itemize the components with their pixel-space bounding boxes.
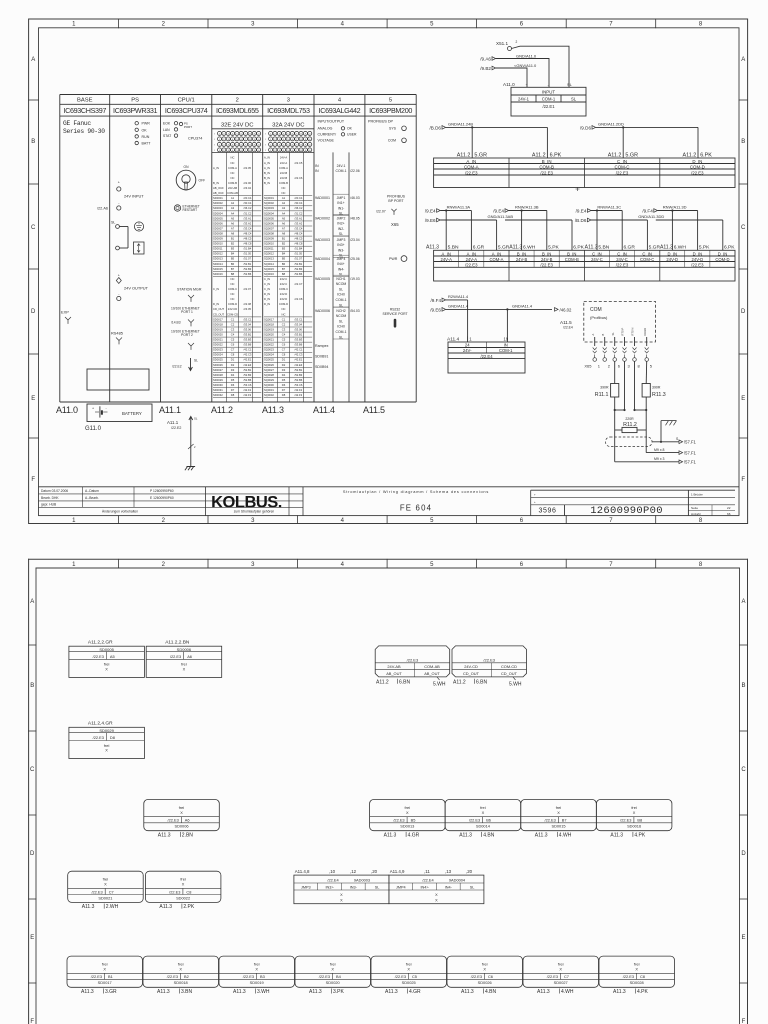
svg-text:COM-D: COM-D: [690, 164, 705, 169]
svg-text:/48.C8: /48.C8: [244, 242, 252, 246]
svg-text:+: +: [118, 274, 120, 278]
svg-text:390R: 390R: [652, 386, 661, 390]
svg-text:INPUT/OUTPUT: INPUT/OUTPUT: [318, 120, 345, 124]
svg-text:A11.3: A11.3: [159, 904, 172, 910]
svg-text:NCH1: NCH1: [336, 277, 345, 281]
svg-text:C6: C6: [488, 974, 493, 979]
svg-text:C_IN: C_IN: [264, 277, 270, 281]
svg-text:COM-A: COM-A: [228, 166, 237, 170]
svg-text:SD0002: SD0002: [213, 201, 223, 205]
svg-text:E: E: [31, 396, 35, 402]
svg-text:A6: A6: [282, 221, 286, 225]
svg-text:AB_OUT: AB_OUT: [386, 671, 402, 676]
svg-text:EXP: EXP: [61, 310, 69, 315]
svg-text:C_IN: C_IN: [213, 287, 219, 291]
svg-text:IN: IN: [315, 164, 319, 168]
svg-text:A6: A6: [187, 654, 192, 659]
svg-text:SL: SL: [339, 319, 343, 323]
svg-text:/22.E3: /22.E3: [623, 974, 634, 979]
svg-text:/48.C8: /48.C8: [295, 242, 303, 246]
svg-text:X: X: [105, 667, 108, 672]
svg-text:SD0026: SD0026: [213, 363, 223, 367]
svg-text:24V-D: 24V-D: [692, 257, 704, 262]
resistor R11.2 220R termination: [615, 410, 647, 433]
svg-text:3.BN: 3.BN: [181, 989, 193, 995]
svg-text:CD_OUT: CD_OUT: [213, 307, 224, 311]
svg-text:/22.C6: /22.C6: [295, 176, 303, 180]
svg-text:COM-D: COM-D: [279, 302, 288, 306]
terminal block A11.3|3.GR: [67, 956, 143, 995]
svg-text:COM-B: COM-B: [228, 181, 237, 185]
svg-text:/22.05: /22.05: [244, 166, 252, 170]
svg-text:A11.3: A11.3: [158, 832, 171, 838]
svg-text:A_IN: A_IN: [264, 156, 270, 160]
svg-text:B8: B8: [637, 818, 642, 823]
svg-text:D_IN: D_IN: [667, 251, 677, 256]
svg-text:/53.04: /53.04: [244, 322, 252, 326]
svg-text:A11.2: A11.2: [211, 405, 233, 415]
svg-text:C: C: [741, 767, 746, 773]
svg-text:/48.C5: /48.C5: [244, 237, 252, 241]
svg-text:C6: C6: [282, 343, 286, 347]
svg-text:R11.2: R11.2: [623, 422, 637, 428]
svg-text:/22.E3: /22.E3: [93, 654, 104, 659]
svg-text:,13: ,13: [445, 869, 452, 874]
svg-text:A2: A2: [282, 201, 286, 205]
svg-text:GND/A11.0: GND/A11.0: [516, 54, 537, 59]
svg-text:/22.E3: /22.E3: [620, 818, 631, 823]
svg-text:5.BN: 5.BN: [598, 244, 609, 250]
svg-text:3.PK: 3.PK: [333, 989, 345, 995]
svg-text:AB_OUF: AB_OUF: [213, 186, 224, 190]
svg-text:B_IN: B_IN: [264, 171, 270, 175]
svg-text:6.BN: 6.BN: [476, 680, 488, 686]
svg-text:SD0014: SD0014: [476, 824, 491, 829]
svg-text:SQ0030: SQ0030: [264, 383, 274, 387]
svg-text:A11.0: A11.0: [503, 82, 515, 87]
svg-text:A5: A5: [282, 216, 286, 220]
svg-text:19: 19: [504, 337, 509, 342]
svg-text:CURRENT/: CURRENT/: [318, 133, 337, 137]
svg-text:RS232: RS232: [390, 308, 400, 312]
svg-text:SL: SL: [339, 303, 343, 307]
svg-text:24V-D: 24V-D: [666, 257, 678, 262]
connector X51.1: [496, 40, 518, 50]
svg-text:24V-A: 24V-A: [280, 156, 288, 160]
svg-text:SD0020: SD0020: [213, 332, 223, 336]
power supply 24V input terminals: [97, 181, 144, 211]
svg-text:C1: C1: [282, 317, 286, 321]
svg-text:D: D: [30, 851, 35, 857]
svg-text:SD0014: SD0014: [213, 262, 223, 266]
svg-text:ANALOG: ANALOG: [318, 127, 333, 131]
svg-text:/22.E2: /22.E2: [171, 426, 181, 430]
svg-text:/53.04: /53.04: [295, 322, 303, 326]
CPU status LEDs and CPU374 label: [163, 122, 202, 141]
svg-text:IN4+: IN4+: [337, 262, 344, 266]
svg-text:B3: B3: [231, 247, 235, 251]
svg-text:/22.E3: /22.E3: [167, 974, 178, 979]
svg-text:F: F: [30, 1019, 34, 1024]
svg-text:4.BN: 4.BN: [485, 989, 497, 995]
svg-text:PORT: PORT: [184, 125, 192, 129]
svg-text:B5: B5: [411, 818, 416, 823]
svg-text:SL: SL: [611, 332, 615, 336]
module 3 header 32A 24V DC terminal block: [263, 122, 314, 152]
svg-text:/22.E3: /22.E3: [471, 974, 482, 979]
module 5 PWR LED: [389, 256, 407, 262]
svg-text:IN2+: IN2+: [337, 222, 344, 226]
svg-text:RNW/A11.3C: RNW/A11.3C: [597, 204, 621, 209]
junction mark below A11.2 block: [576, 187, 580, 191]
svg-text:6.GR: 6.GR: [473, 244, 485, 250]
svg-text:OK: OK: [142, 128, 148, 132]
svg-text:/19.03: /19.03: [350, 277, 360, 281]
svg-text:SQ0032: SQ0032: [264, 393, 274, 397]
svg-text:C_IN: C_IN: [264, 282, 270, 286]
terminal block A11.2,2.GR: [69, 640, 144, 678]
svg-text:SD0018: SD0018: [174, 980, 188, 985]
svg-text:NC: NC: [282, 307, 286, 311]
svg-text:A5: A5: [110, 654, 115, 659]
svg-text:X51.1: X51.1: [496, 41, 508, 46]
svg-text:SQ0004: SQ0004: [264, 211, 274, 215]
svg-text:A6: A6: [185, 818, 190, 823]
svg-text:C3: C3: [282, 327, 286, 331]
svg-text:D_IN: D_IN: [693, 251, 703, 256]
svg-text:/33.A2: /33.A2: [244, 221, 252, 225]
svg-text:IN3+: IN3+: [337, 243, 344, 247]
svg-text:/53.C1: /53.C1: [244, 317, 252, 321]
svg-text:/53.B1: /53.B1: [295, 332, 303, 336]
svg-text:B4: B4: [282, 252, 286, 256]
svg-text:COM-CD: COM-CD: [501, 664, 517, 669]
svg-text:SD0012: SD0012: [213, 252, 223, 256]
terminal block A11.2 6.BN 5.WH output AB: [375, 646, 450, 688]
svg-text:/42.C3: /42.C3: [244, 353, 252, 357]
ground and shield below A11.1: [167, 417, 198, 471]
svg-text:B4: B4: [231, 252, 235, 256]
CPU key switch: [176, 165, 205, 190]
svg-text:/22.E3: /22.E3: [93, 735, 104, 740]
module 5 RS232 service port: [382, 308, 407, 328]
svg-text:COM-1: COM-1: [336, 330, 347, 334]
svg-text:A11.3: A11.3: [459, 832, 472, 838]
cable shield symbol: [606, 437, 653, 447]
sheet 2: [29, 559, 748, 1024]
module 4 header INPUT/OUTPUT ANALOG: [318, 120, 357, 143]
svg-text:B: B: [741, 683, 745, 689]
svg-text:/42.E3: /42.E3: [295, 363, 303, 367]
svg-text:/42.C1: /42.C1: [244, 348, 252, 352]
svg-text:C5: C5: [412, 974, 417, 979]
svg-text:/51.05: /51.05: [295, 252, 303, 256]
svg-text:/53.B3: /53.B3: [244, 338, 252, 342]
svg-text:/33.A1: /33.A1: [295, 216, 303, 220]
module 2 IC693MDL655 input terminal listing SD0001-SD0032: [213, 152, 261, 402]
svg-text:24V-CD: 24V-CD: [228, 307, 237, 311]
terminal block A11.3|4.GR: [370, 800, 446, 839]
svg-text:IC693MDL753: IC693MDL753: [267, 106, 310, 115]
terminal block A11.3|4.PK: [599, 956, 675, 995]
svg-text:66: 66: [727, 512, 731, 516]
svg-text:/20.C4: /20.C4: [244, 196, 252, 200]
wire RTS-N to termination node: [633, 361, 647, 411]
svg-text:/B.D6: /B.D6: [430, 125, 442, 130]
svg-text:B1: B1: [282, 237, 286, 241]
svg-text:D6: D6: [231, 383, 235, 387]
svg-text:+: +: [92, 407, 94, 411]
svg-text:NC: NC: [282, 186, 286, 190]
svg-text:A7: A7: [282, 226, 286, 230]
svg-text:9AD0003: 9AD0003: [354, 878, 370, 883]
svg-text:F: F: [31, 477, 35, 483]
svg-text:A11.3: A11.3: [535, 832, 548, 838]
svg-text:COM-C: COM-C: [640, 257, 654, 262]
svg-text:C3: C3: [231, 327, 235, 331]
svg-text:JMP3: JMP3: [301, 886, 311, 890]
svg-text:/22.E3: /22.E3: [616, 263, 629, 268]
svg-text:/22.E3: /22.E3: [168, 818, 179, 823]
svg-text:SQ0017: SQ0017: [264, 317, 274, 321]
svg-text:/31.C2: /31.C2: [295, 211, 303, 215]
svg-text:NC: NC: [231, 282, 235, 286]
svg-text:IN3-: IN3-: [350, 886, 358, 890]
svg-text:B: B: [601, 334, 605, 336]
svg-text:C: C: [31, 225, 36, 231]
svg-text:SQ0028: SQ0028: [264, 373, 274, 377]
svg-text:SL: SL: [339, 287, 343, 291]
svg-text:F: F: [741, 477, 745, 483]
svg-text:C_IN: C_IN: [642, 251, 652, 256]
svg-text:C7: C7: [282, 348, 286, 352]
svg-text:SQ0029: SQ0029: [264, 378, 274, 382]
svg-text:ICH0: ICH0: [337, 293, 345, 297]
svg-text:SD0016: SD0016: [213, 272, 223, 276]
svg-text:/33.A1: /33.A1: [244, 216, 252, 220]
svg-text:COM-1: COM-1: [499, 348, 513, 353]
svg-text:gepr. HUB: gepr. HUB: [41, 502, 57, 506]
svg-text:/52.B3: /52.B3: [244, 373, 252, 377]
svg-text:/B.D6: /B.D6: [575, 218, 587, 223]
svg-text:A1: A1: [231, 196, 235, 200]
svg-text:C4: C4: [282, 332, 286, 336]
svg-text:A8: A8: [231, 231, 235, 235]
svg-text:SD0025: SD0025: [213, 358, 223, 362]
svg-text:IC693PBM200: IC693PBM200: [369, 106, 412, 115]
svg-text:A11.0: A11.0: [56, 405, 78, 415]
svg-text:B6: B6: [231, 262, 235, 266]
svg-text:D4: D4: [231, 373, 235, 377]
svg-text:A8: A8: [282, 231, 286, 235]
svg-text:IC693PWR331: IC693PWR331: [113, 106, 157, 115]
svg-text:24V-A: 24V-A: [440, 257, 452, 262]
svg-text:SD0019: SD0019: [213, 327, 223, 331]
svg-text:/22.E3: /22.E3: [395, 974, 406, 979]
svg-text:D_IN: D_IN: [264, 297, 270, 301]
svg-text:SD0023: SD0023: [213, 348, 223, 352]
terminal block A11.2,2.BN: [146, 640, 222, 678]
svg-text:SQ0020: SQ0020: [264, 332, 274, 336]
svg-text:COM-AB: COM-AB: [227, 191, 238, 195]
svg-text:G11.0: G11.0: [85, 426, 102, 432]
svg-text:/22.06: /22.06: [244, 181, 252, 185]
svg-text:A6: A6: [231, 221, 235, 225]
svg-text:EOK: EOK: [163, 122, 171, 126]
svg-text:SD0018: SD0018: [213, 322, 223, 326]
svg-text:GE Fanuc: GE Fanuc: [63, 120, 91, 127]
svg-text:A_IN: A_IN: [466, 159, 476, 164]
svg-text:/33.C4: /33.C4: [244, 226, 252, 230]
svg-text:4.WH: 4.WH: [559, 832, 572, 838]
svg-text:SD0022: SD0022: [213, 343, 223, 347]
svg-text:/22.E3: /22.E3: [170, 654, 181, 659]
svg-text:PORT 2: PORT 2: [181, 333, 193, 337]
svg-text:24V-C: 24V-C: [616, 257, 628, 262]
svg-text:/22.E3: /22.E3: [91, 974, 102, 979]
svg-text:B: B: [31, 139, 35, 145]
terminal block A11.3|4.GR: [371, 956, 447, 995]
svg-text:24V-1: 24V-1: [337, 164, 346, 168]
svg-text:B8: B8: [282, 272, 286, 276]
PLC rack A11 module table grid: [60, 95, 416, 403]
svg-text:/52.B3: /52.B3: [295, 267, 303, 271]
svg-text:GND/A11.3DD: GND/A11.3DD: [638, 214, 664, 219]
svg-text:/51.B4: /51.B4: [244, 247, 252, 251]
CPU ethernet port 1: [171, 307, 200, 327]
svg-text:B_IN: B_IN: [567, 251, 576, 256]
svg-text:SD0026: SD0026: [478, 980, 492, 985]
svg-text:C5: C5: [282, 338, 286, 342]
svg-text:24V-CD: 24V-CD: [464, 664, 478, 669]
svg-text:RNW/A11.3D: RNW/A11.3D: [663, 204, 687, 209]
svg-text:RNW/A11.3A: RNW/A11.3A: [447, 204, 471, 209]
svg-text:BATTERY: BATTERY: [122, 411, 142, 416]
shield output S to /57.F1: [652, 437, 697, 445]
COM Profibus dashed interface box: [584, 301, 656, 342]
svg-text:A11.2,4.GR: A11.2,4.GR: [88, 721, 113, 727]
svg-text:/22.A6: /22.A6: [97, 207, 108, 211]
svg-text:INPUT: INPUT: [542, 90, 555, 95]
svg-text:9AD0003: 9AD0003: [315, 238, 330, 242]
svg-text:12600990P00: 12600990P00: [590, 505, 663, 517]
svg-text:/53.B3: /53.B3: [295, 338, 303, 342]
svg-text:6.PK: 6.PK: [573, 244, 584, 250]
terminal block A11.3|4.BN: [445, 800, 521, 839]
svg-text:B2: B2: [282, 242, 286, 246]
svg-text:CPU/1: CPU/1: [178, 98, 195, 104]
svg-text:A11.3: A11.3: [309, 989, 322, 995]
svg-text:C8: C8: [186, 889, 191, 894]
svg-text:SL: SL: [375, 886, 380, 890]
svg-text:/51.07: /51.07: [295, 257, 303, 261]
svg-text:SQ0022: SQ0022: [264, 343, 274, 347]
svg-text:D_IN: D_IN: [264, 302, 270, 306]
svg-text:/22.E4: /22.E4: [563, 325, 573, 329]
svg-text:NC: NC: [231, 292, 235, 296]
module 5 header PROFIBUS DP LEDs: [368, 120, 406, 143]
svg-text:B5: B5: [282, 257, 286, 261]
svg-text:/9.B2: /9.B2: [480, 66, 491, 71]
svg-text:/52.B3: /52.B3: [295, 373, 303, 377]
svg-text:24V-C: 24V-C: [280, 282, 288, 286]
svg-text:/48.05: /48.05: [350, 216, 360, 220]
svg-text:JMP2: JMP2: [337, 216, 346, 220]
svg-text:A.-Bearb.: A.-Bearb.: [85, 496, 99, 500]
wire from X51.1 to A11.0 SL terminal: [512, 46, 570, 87]
svg-text:COM-C: COM-C: [279, 287, 288, 291]
svg-text:Series 90-30: Series 90-30: [63, 128, 105, 135]
svg-text:COM: COM: [388, 139, 396, 143]
svg-text:X: X: [103, 967, 106, 972]
svg-text:A11.1: A11.1: [167, 420, 179, 425]
svg-text:/57.F1: /57.F1: [684, 451, 697, 456]
svg-text:GND/A11.3AB: GND/A11.3AB: [488, 214, 514, 219]
svg-text:AB_OUF: AB_OUF: [213, 191, 224, 195]
svg-text:5: 5: [389, 98, 392, 104]
svg-text:5.PK: 5.PK: [548, 244, 559, 250]
wire group RNW/A11.3C: [575, 204, 648, 250]
svg-text:C8: C8: [640, 974, 645, 979]
terminal block A11.3|3.WH: [219, 956, 295, 995]
svg-text:/22.07: /22.07: [376, 210, 386, 214]
svg-text:CPU374: CPU374: [188, 137, 202, 141]
svg-text:COM-1: COM-1: [336, 298, 347, 302]
svg-text:/57.F1: /57.F1: [684, 460, 697, 465]
svg-text:SD0013: SD0013: [213, 257, 223, 261]
svg-text:D8: D8: [231, 393, 235, 397]
svg-text:IN1-: IN1-: [338, 206, 344, 210]
svg-text:5.BN: 5.BN: [448, 244, 459, 250]
svg-text:6.PK: 6.PK: [724, 244, 735, 250]
source reference /9.D6 wire GND/A11.2DD: [580, 122, 698, 159]
svg-text:SQ0014: SQ0014: [264, 262, 274, 266]
svg-text:COM-1: COM-1: [542, 97, 556, 102]
svg-text:SL: SL: [339, 212, 343, 216]
svg-text:B: B: [30, 683, 34, 689]
svg-text:IC693CPU374: IC693CPU374: [165, 106, 208, 115]
terminal block A11.2 6.BN 5.WH output CD: [452, 646, 527, 688]
svg-text:/53.06: /53.06: [244, 327, 252, 331]
svg-text:D4: D4: [282, 373, 286, 377]
module 5 PROFIBUS DP port: [376, 195, 406, 227]
svg-text:C_IN: C_IN: [592, 251, 602, 256]
svg-text:X: X: [340, 899, 343, 903]
svg-text:/9.E4: /9.E4: [493, 208, 504, 213]
svg-text:A_IN: A_IN: [467, 251, 476, 256]
svg-text:/46.03: /46.03: [350, 196, 360, 200]
svg-text:A_IN: A_IN: [264, 161, 270, 165]
svg-text:D: D: [741, 851, 746, 857]
svg-text:/22.E4: /22.E4: [327, 878, 339, 883]
svg-text:C_IN: C_IN: [264, 287, 270, 291]
svg-text:SD0013: SD0013: [400, 824, 414, 829]
chassis ground: [660, 421, 677, 443]
svg-text:5.GR: 5.GR: [649, 244, 661, 250]
svg-text:X: X: [179, 967, 182, 972]
resistor R11.3 390R: [642, 361, 666, 410]
svg-text:/36.C2: /36.C2: [295, 206, 303, 210]
svg-text:D8: D8: [110, 735, 115, 740]
svg-text:A11.3: A11.3: [233, 989, 246, 995]
svg-text:GND/A11.24B: GND/A11.24B: [448, 122, 473, 127]
svg-text:24V-B: 24V-B: [280, 171, 288, 175]
svg-text:SL: SL: [194, 359, 198, 363]
svg-text:/52.B1: /52.B1: [244, 368, 252, 372]
svg-text:B_IN: B_IN: [542, 159, 552, 164]
svg-text:/22.E3: /22.E3: [540, 170, 553, 175]
svg-text:Seite: Seite: [691, 506, 698, 510]
